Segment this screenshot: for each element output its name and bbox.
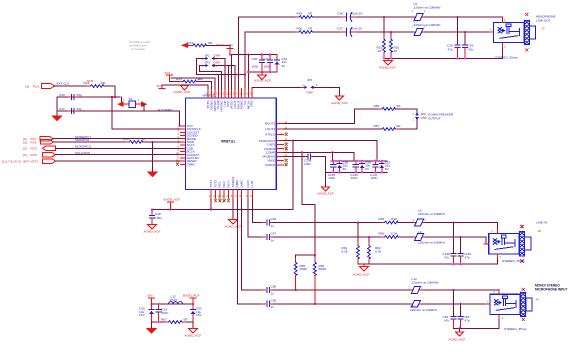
junction [150,303,152,305]
svg-text:220ohm at 100MHz: 220ohm at 100MHz [414,6,441,10]
svg-text:AGND_ACF: AGND_ACF [317,192,334,196]
svg-text:J7: J7 [542,27,546,31]
svg-text:[2,3,7,8,+5 C]: [2,3,7,8,+5 C] [2,160,21,164]
capacitor C146 100n [355,161,357,165]
junction [301,151,303,153]
svg-text:VMID: VMID [267,159,276,163]
line-in row2 to jack [425,237,489,244]
connector J9 microphone jack [490,292,532,316]
EXT_CLK wire to crystal rail [104,86,115,97]
svg-text:XTALO: XTALO [265,133,276,137]
wire IC pin to JP4 [252,87,306,88]
no-connect X on IC right pin [285,163,288,166]
wire LLIN down [252,199,262,223]
resistor R24 [179,80,200,83]
svg-text:220ohm at 100MHz: 220ohm at 100MHz [418,212,445,216]
svg-text:PC8: PC8 [31,153,37,157]
svg-text:X2: X2 [129,97,133,101]
capacitor C40 100n [261,55,263,61]
junction [294,289,296,291]
ferrite bead L11 [411,303,413,305]
capacitor C56 10u polarized [361,161,363,164]
svg-text:AGND_ACF: AGND_ACF [331,101,348,105]
svg-text:3V3: 3V3 [157,84,163,88]
svg-text:C37: C37 [59,107,65,111]
junction [247,53,249,55]
svg-text:33p: 33p [77,93,82,97]
svg-text:LINE-IN: LINE-IN [536,220,547,224]
svg-text:R24: R24 [176,77,182,81]
wire to IC pin x235 [234,66,236,89]
svg-text:C30: C30 [59,93,65,97]
capacitor C37 47u/6.3V [341,31,347,33]
line-in row1 [273,222,383,224]
junction [261,53,263,55]
svg-text:47u/6.3V: 47u/6.3V [350,26,363,30]
svg-text:SDIN/PC6: SDIN/PC6 [75,138,90,142]
inductor L12 40uH [169,302,183,304]
bank bottom rail [326,171,388,173]
svg-text:NC3: NC3 [227,181,231,187]
junction [363,263,365,265]
resistor R61 8.2K [357,223,359,246]
svg-text:J9: J9 [536,297,540,301]
svg-text:100n: 100n [371,176,378,180]
svg-text:AGND_ACF: AGND_ACF [144,230,161,234]
svg-text:10u: 10u [282,60,287,64]
junction [368,236,370,238]
svg-text:47p: 47p [448,47,453,51]
svg-text:STEREO_35mm: STEREO_35mm [504,327,527,331]
wire MONOOUT row down [283,140,293,142]
svg-text:EXT CLK: EXT CLK [57,81,71,85]
connector J7 headphone jack [494,20,536,44]
svg-text:3V3: 3V3 [147,293,153,297]
ground filled sdin [147,172,158,178]
INT wire [56,160,181,162]
junction [314,303,316,305]
no-connect X on IC right pin [285,133,288,136]
svg-text:R49: R49 [297,11,303,15]
ferrite bead L6 [414,16,415,18]
junction [390,57,392,59]
svg-text:C41: C41 [263,57,269,61]
port [2,3,7,8] INT [43,159,56,164]
svg-text:1n: 1n [271,238,275,242]
no-connect X on IC bottom pin [223,199,226,202]
svg-text:220ohm at 100MHz: 220ohm at 100MHz [414,23,441,27]
junction [456,57,458,59]
svg-text:R57: R57 [374,124,380,128]
jumper JP6 pin2 [415,112,419,115]
junction [237,73,239,75]
speaker row1 to JP6 [395,109,417,112]
capacitor C58 1n [262,289,266,291]
ferrite bead L8 [414,222,416,224]
svg-text:R73: R73 [188,41,194,45]
bank top rail [331,160,387,162]
svg-text:and fitted same: and fitted same [129,43,147,47]
junction [456,16,458,18]
resistor R52 1K vertical [390,32,392,39]
svg-text:STEREO_35mm: STEREO_35mm [502,259,525,263]
crystal rail1 [57,96,120,98]
svg-text:100n: 100n [155,216,162,220]
junction [314,254,316,256]
svg-text:R50: R50 [297,26,303,30]
junction [192,303,194,305]
no-connect X on IC right pin [285,159,288,162]
svg-text:+: + [346,26,348,30]
junction [269,71,271,73]
svg-text:AGND_ACF: AGND_ACF [254,79,271,83]
XTI wire to IC [112,97,181,129]
junction [390,31,392,33]
svg-text:C59: C59 [271,298,277,302]
port arrow BVCC (off-page, left) [181,43,188,48]
svg-text:TST2: TST2 [213,180,217,188]
ferrite bead L9 [414,236,416,238]
wire to IC pin x228.3 [227,66,229,89]
junction [383,57,385,59]
no-connect X on IC right pin [285,147,288,150]
resistor R14 0R DNP [87,85,108,88]
HP row2 wire to ferrite [357,31,414,33]
svg-text:AGND_ACF: AGND_ACF [185,334,202,338]
HP row2 wire to jack [425,31,490,33]
MODE wire [53,138,181,140]
svg-text:47p: 47p [468,47,473,51]
capacitor C42 10u polarized [276,55,278,60]
SDIN pulldown vertical [152,142,154,172]
wire rail to IC pin x248.4 [247,55,249,89]
svg-text:R60: R60 [379,232,385,236]
ground AGND_ACF filter [192,322,194,328]
svg-text:33p: 33p [77,107,82,111]
svg-text:C46: C46 [271,217,277,221]
wire rail to IC pin x231.65 [231,55,233,89]
resistor R16 4K7 [126,141,146,144]
resistor R56 0R [380,108,383,110]
jumper JP4 [300,86,317,89]
svg-text:220ohm at 100MHz: 220ohm at 100MHz [410,308,437,312]
svg-text:C58: C58 [271,285,277,289]
junction [464,57,466,59]
mic row1 to jack [422,290,499,294]
connector J8 line-in jack [489,231,531,255]
junction [452,289,454,291]
wire RHPOUT vertical [244,32,246,89]
wire IC bottom pin1 to rail [210,199,212,210]
svg-text:100n: 100n [162,311,169,315]
ground AGND_ACF bank [325,172,327,187]
IC right pins [276,123,283,125]
port [3] PC8 [43,152,56,157]
svg-text:AGND_ACF: AGND_ACF [225,224,242,228]
ground AGND_ACF linein [363,264,365,266]
wire JP3 pin2 loop [200,66,222,89]
line-in row1 to ferrite [398,222,414,224]
resistor R50 0R row2 [295,31,316,34]
junction [269,53,271,55]
line-in row2 [273,236,383,238]
capacitor C59 1n [262,303,266,305]
line-in ground rail [358,254,498,264]
svg-text:C47: C47 [271,232,277,236]
svg-text:10K: 10K [198,77,204,81]
svg-text:1n: 1n [271,291,275,295]
no-connect X on IC right pin [285,143,288,146]
svg-text:NC1: NC1 [218,181,222,187]
svg-text:NC2: NC2 [222,181,226,187]
svg-text:JP4: JP4 [307,78,313,82]
jumper JP3 [201,64,218,67]
capacitor C37b 33p [68,110,70,112]
resistor R67 0R [165,321,186,324]
resistor R73 0R [189,44,210,47]
svg-text:LOUT2: LOUT2 [265,127,275,131]
svg-text:[3]: [3] [23,140,27,144]
rail BVCC y54.5 [230,54,277,56]
svg-text:[3]: [3] [26,85,30,89]
junction [224,64,226,66]
junction [114,96,116,98]
capacitor C36 47u/6.3V [341,16,347,18]
no-connect X on IC bottom pin [218,199,221,202]
svg-text:LINE-OUT: LINE-OUT [536,18,551,22]
svg-text:LMIC: LMIC [240,179,244,187]
ground AGND_ACF arrow [181,86,189,90]
speaker row1 from IC [283,109,379,124]
svg-text:1n: 1n [271,224,275,228]
capacitor C47 1n [262,236,266,238]
port [3] PC7 [40,136,53,141]
capacitor C30 33p [68,96,70,98]
svg-text:R59: R59 [379,217,385,221]
svg-text:BVCC_ACF: BVCC_ACF [217,43,234,47]
svg-text:CREF: CREF [187,162,196,166]
svg-text:8.2K: 8.2K [342,249,349,253]
svg-text:47p: 47p [465,255,470,259]
IC U2 WM8711L body [186,98,277,190]
svg-text:1n: 1n [271,305,275,309]
svg-text:8.2K: 8.2K [391,232,398,236]
resistor R62 8.2K [368,237,370,246]
junction [247,71,249,73]
svg-text:AVDD2: AVDD2 [265,163,275,167]
svg-text:DNP: DNP [214,61,221,65]
HP ground rail y58.3 [384,43,503,58]
junction [331,151,333,153]
svg-text:STEREO_35mm: STEREO_35mm [495,56,518,60]
line-in row1 to jack [425,223,498,234]
junction [210,208,212,210]
svg-text:BVDD_ACF: BVDD_ACF [164,197,181,201]
wire VMID to bias resistors [302,152,315,255]
IC left pins [181,125,186,127]
svg-text:RLIN: RLIN [246,180,250,187]
capacitor C52 10u 16V [192,304,194,309]
svg-text:DNP: DNP [307,91,314,95]
capacitor C46 1n [262,222,266,224]
capacitor C149 47p [460,237,462,253]
svg-text:SCLK/PC8: SCLK/PC8 [75,151,90,155]
resistor R51 1K vertical [383,17,385,39]
svg-text:R67: R67 [161,317,167,321]
IC bottom pins [210,190,212,200]
mic row2 to jack [422,303,490,305]
resistor R60 8.2K [383,236,384,238]
filter bottom rail2 [182,321,193,323]
junction [292,140,294,142]
filter bottom rail [152,321,169,323]
wire MONOOUT to cell3 top [293,141,377,161]
svg-text:VDD: VDD [250,100,254,107]
svg-text:2N7/2N8 are used: 2N7/2N8 are used [129,40,151,44]
svg-text:8.2K: 8.2K [375,249,382,253]
mic ground rail [454,315,500,329]
svg-text:WM8711L: WM8711L [221,139,236,143]
crystal X2 24.576MHz [121,97,123,104]
wire row y74.6 [197,74,245,76]
ground AGND_ACF below bank [261,72,263,75]
capacitor C28 47p [457,17,459,45]
ground AGND_ACF jp4 [335,96,344,100]
jumper JP2 [201,57,218,60]
filter top rail [152,303,194,305]
svg-text:MCKO/PC2: MCKO/PC2 [75,145,91,149]
svg-text:47p: 47p [465,319,470,323]
junction [458,327,460,329]
capacitor C148 47p [453,223,455,254]
junction [459,236,461,238]
junction [229,53,231,55]
wire JP2 pin1 down [213,58,225,65]
junction [355,160,357,162]
svg-text:16V: 16V [139,313,145,317]
junction [158,321,160,323]
svg-text:C37: C37 [337,26,343,30]
svg-text:C36: C36 [337,11,343,15]
resistor R57 0R [378,128,399,131]
HP row1 wire to ferrite [357,16,414,18]
junction [464,31,466,33]
wire row y85 to IC pin x208.2 [162,85,208,89]
svg-text:DNP: DNP [87,79,94,83]
junction [452,221,454,223]
svg-text:J8: J8 [538,229,542,233]
wire C138 down to bank bottom [325,156,327,172]
port [3] PCC out [43,146,56,151]
wire JP4 pin2 to ground [312,87,340,96]
MCKO wire [56,147,181,149]
line-in row2 to ferrite [398,236,414,238]
junction [244,73,246,75]
svg-text:24.576MHz: 24.576MHz [157,108,173,112]
svg-text:AGND_ACF: AGND_ACF [174,90,191,94]
power symbol BVCC_ACF [227,48,233,50]
svg-text:47p: 47p [444,319,449,323]
svg-text:DNP: DNP [214,54,221,58]
wire to IC pin x224.95 [224,66,226,89]
ground AGND_ACF mic [459,328,461,332]
svg-text:PCC: PCC [31,147,38,151]
capacitor C138 100n horizontal [283,155,305,157]
SDIN wire2 [143,141,181,143]
no-connect X on IC bottom pin [214,199,217,202]
bias top rail [296,254,315,256]
junction [261,71,263,73]
wire RMIC down [237,199,262,304]
resistor R59 8.2K [383,222,384,224]
crystal left vertical [56,97,58,116]
wire LMIC down [242,199,262,290]
svg-text:OUTPUT: OUTPUT [428,117,441,121]
wire bank vert x332.5 [332,152,334,161]
capacitor C147 100n [375,161,377,165]
power 3V3 [167,74,173,76]
svg-text:[3]: [3] [23,147,27,151]
svg-text:ROUT2: ROUT2 [265,122,276,126]
ground AGND_ACF c48 [148,225,157,229]
svg-text:47u/6.3V: 47u/6.3V [350,11,363,15]
no-connect X on IC left CREF pin [176,163,179,166]
svg-text:220ohm at 100MHz: 220ohm at 100MHz [418,241,445,245]
port [3] PC3 [42,84,55,89]
capacitor C63 47p [460,304,462,317]
svg-text:L9: L9 [418,230,422,234]
svg-text:100n: 100n [252,65,259,69]
svg-text:R56: R56 [374,104,380,108]
svg-text:4K7: 4K7 [141,137,147,141]
svg-text:PC3: PC3 [33,85,39,89]
svg-text:R16: R16 [123,137,129,141]
wire RLIN down [248,199,262,237]
junction [376,160,378,162]
junction [158,303,160,305]
wire R73 to BVCC tee [206,45,230,48]
SDIN wire [54,141,130,143]
ferrite bead L10 [411,289,413,291]
svg-text:AGND_ACF: AGND_ACF [353,272,370,276]
ferrite bead L7 [414,31,415,33]
XTO wire to IC [180,111,181,126]
wire vert x293 to BVDD rail [152,141,293,210]
junction [452,263,454,265]
svg-text:8.2K: 8.2K [391,217,398,221]
capacitor C41 100n [269,55,271,61]
svg-text:as Template: as Template [131,47,145,51]
svg-text:16V: 16V [196,313,202,317]
capacitor C48 100n to gnd [151,210,153,216]
capacitor C51 100n [158,304,160,310]
svg-text:[3]: [3] [23,153,27,157]
capacitor C29 47p [464,32,466,45]
capacitor C145 100n [332,161,334,165]
junction [151,208,153,210]
HP row2 wire [245,31,299,33]
svg-text:PC6: PC6 [31,140,37,144]
capacitor C57 10u polarized [381,161,383,164]
wire LHPOUT vertical [237,17,239,89]
speaker row2 from JP6 [395,120,417,129]
wire COMP row to bank [283,152,354,161]
crystal rail2 [57,110,180,112]
HP row1 wire to jack [425,17,503,22]
junction [459,303,461,305]
svg-text:680R: 680R [319,267,327,271]
svg-text:100n: 100n [351,176,358,180]
